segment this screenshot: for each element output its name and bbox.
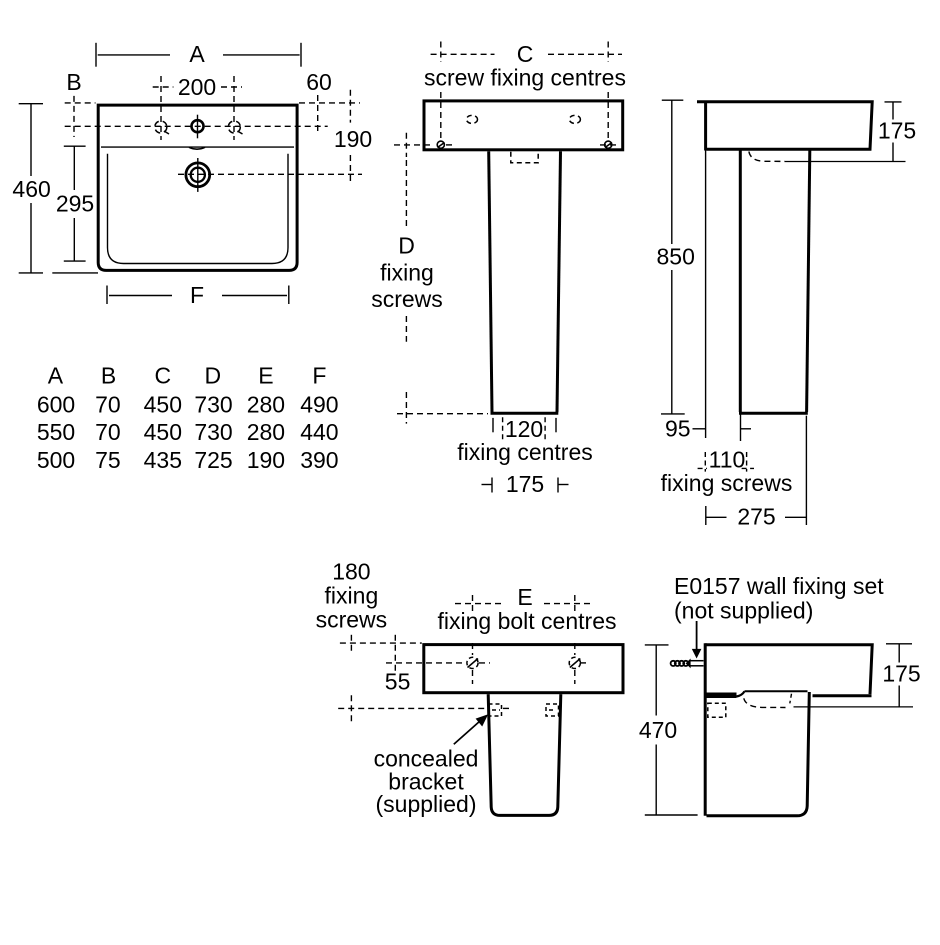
tap centreline dashed — [65, 125, 328, 127]
arrow to bracket — [454, 721, 480, 744]
dim 200 dashes — [153, 76, 242, 140]
svg-text:screws: screws — [316, 607, 388, 633]
svg-text:850: 850 — [657, 244, 695, 270]
semi-pedestal outline — [707, 692, 810, 816]
svg-text:B: B — [66, 69, 81, 95]
svg-text:725: 725 — [194, 447, 232, 473]
svg-text:60: 60 — [306, 69, 332, 95]
bracket symbol right — [546, 704, 559, 716]
svg-text:190: 190 — [247, 447, 285, 473]
svg-text:275: 275 — [737, 504, 775, 530]
pedestal outline — [739, 151, 810, 414]
svg-text:280: 280 — [247, 392, 285, 418]
svg-text:470: 470 — [639, 717, 677, 743]
hidden bowl dashed arc — [749, 152, 785, 162]
basin shelf line — [101, 146, 294, 148]
basin outline — [705, 645, 872, 694]
pedestal outline — [489, 151, 561, 413]
svg-text:600: 600 — [37, 392, 75, 418]
svg-text:screw fixing centres: screw fixing centres — [424, 65, 626, 91]
svg-text:180: 180 — [332, 559, 370, 585]
svg-text:C: C — [517, 41, 534, 67]
hidden bracket dashed arc — [744, 698, 786, 707]
svg-text:E: E — [258, 363, 273, 389]
svg-text:440: 440 — [300, 419, 338, 445]
bolt centre line dashed — [386, 662, 588, 664]
svg-text:110: 110 — [709, 447, 746, 473]
dim 275 — [706, 416, 807, 525]
svg-text:435: 435 — [144, 447, 182, 473]
bolt hole left — [467, 657, 478, 668]
svg-text:450: 450 — [144, 392, 182, 418]
bracket symbol left — [489, 704, 502, 716]
wall extension line — [705, 151, 707, 439]
svg-text:730: 730 — [194, 419, 232, 445]
svg-text:730: 730 — [194, 392, 232, 418]
svg-text:175: 175 — [878, 118, 916, 144]
svg-text:70: 70 — [95, 392, 121, 418]
basin outline — [697, 102, 872, 150]
dim 180 dashed line — [340, 635, 422, 673]
dim 470 — [645, 645, 698, 815]
basin rect — [424, 101, 623, 150]
screw right — [605, 141, 612, 148]
svg-text:(supplied): (supplied) — [376, 791, 477, 817]
bolt hole right — [569, 657, 580, 668]
basin bottom right — [813, 694, 872, 697]
concealed bracket dashed — [511, 152, 538, 163]
svg-text:390: 390 — [300, 447, 338, 473]
svg-text:70: 70 — [95, 419, 121, 445]
tap hole left dashed ellipse — [467, 115, 478, 123]
bracket level dashed line — [338, 695, 510, 722]
basin bottom lip thick — [706, 693, 737, 699]
svg-text:175: 175 — [506, 471, 544, 497]
dim 120 ticks — [493, 418, 556, 432]
dim D dashed line — [397, 133, 488, 424]
semi-pedestal top ridge — [745, 690, 808, 692]
basin outline — [98, 105, 297, 270]
svg-text:(not supplied): (not supplied) — [674, 598, 813, 624]
svg-text:B: B — [101, 363, 116, 389]
tap hole right dashed ellipse — [569, 115, 580, 123]
svg-text:55: 55 — [385, 669, 411, 695]
dim 295 — [64, 146, 86, 261]
svg-text:200: 200 — [178, 74, 216, 100]
overflow hole — [186, 158, 210, 192]
extension line 175 — [785, 161, 906, 163]
semi-pedestal outline — [488, 694, 561, 815]
svg-text:C: C — [154, 363, 171, 389]
dim 175 — [886, 644, 912, 707]
dim E dashed — [455, 595, 592, 684]
svg-text:500: 500 — [37, 447, 75, 473]
lip curve — [737, 691, 745, 696]
dim 95 — [693, 407, 752, 442]
dim A line — [96, 43, 301, 67]
extension line 175 — [794, 706, 914, 708]
svg-text:fixing screws: fixing screws — [661, 470, 793, 496]
dim 60 cross — [299, 95, 360, 133]
dim C dashed line — [431, 42, 622, 139]
svg-text:fixing: fixing — [380, 260, 434, 286]
svg-text:75: 75 — [95, 447, 121, 473]
dim 190 — [178, 90, 362, 184]
dim 850 — [661, 100, 685, 414]
wall screw icon — [671, 659, 704, 669]
tap hole centre — [192, 115, 204, 139]
svg-text:F: F — [190, 282, 204, 308]
svg-text:screws: screws — [371, 286, 443, 312]
svg-text:F: F — [312, 363, 326, 389]
svg-text:D: D — [204, 363, 221, 389]
svg-text:450: 450 — [144, 419, 182, 445]
svg-text:490: 490 — [300, 392, 338, 418]
basin rect — [424, 645, 623, 693]
hidden dashed riser — [790, 694, 792, 704]
screw fixing line dashed — [394, 144, 618, 146]
svg-text:E0157 wall fixing set: E0157 wall fixing set — [674, 573, 884, 599]
dim 175 bottom — [482, 478, 569, 493]
svg-text:fixing bolt centres: fixing bolt centres — [438, 608, 617, 634]
svg-text:190: 190 — [334, 126, 372, 152]
tap hole right (dashed) — [228, 121, 242, 134]
concealed bracket dashed rect — [708, 703, 726, 717]
svg-text:A: A — [189, 41, 205, 67]
dim 110 dashed — [698, 452, 754, 472]
svg-text:D: D — [398, 233, 415, 259]
svg-text:460: 460 — [12, 176, 50, 202]
svg-text:95: 95 — [665, 415, 691, 441]
basin + semi-pedestal back edge — [704, 643, 707, 816]
svg-text:fixing: fixing — [325, 583, 379, 609]
bowl outline — [108, 154, 289, 264]
svg-text:A: A — [48, 363, 64, 389]
tap hole left (dashed) — [155, 121, 169, 134]
svg-text:E: E — [517, 584, 532, 610]
shelf dip — [189, 147, 205, 149]
svg-text:295: 295 — [56, 190, 94, 216]
dim B cross — [65, 96, 96, 137]
dim F — [107, 286, 289, 305]
svg-text:550: 550 — [37, 419, 75, 445]
basin left edge — [704, 101, 707, 151]
dim 460 — [19, 104, 98, 273]
dim 175 — [885, 102, 902, 162]
svg-text:175: 175 — [882, 660, 920, 686]
arrow down — [696, 621, 698, 650]
screw left — [437, 141, 444, 148]
svg-text:280: 280 — [247, 419, 285, 445]
svg-text:fixing centres: fixing centres — [457, 439, 593, 465]
